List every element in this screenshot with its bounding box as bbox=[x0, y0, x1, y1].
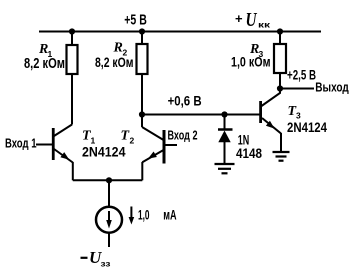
node: output node (R3 / T3 collector) bbox=[277, 85, 283, 91]
svg-text:U: U bbox=[246, 9, 258, 31]
transistor T3 base bar bbox=[259, 101, 262, 123]
current direction arrow (1,0 мА) bbox=[129, 207, 135, 225]
wire: diode anode to ground bbox=[224, 142, 226, 164]
T1 emitter arrow bbox=[60, 152, 69, 160]
diode D1 (1N4148) bbox=[218, 115, 233, 165]
node: tail junction to current source bbox=[106, 177, 112, 183]
wire: T1 emitter down to tail bbox=[72, 162, 74, 180]
wire: current source to -Uээ bbox=[108, 233, 110, 248]
svg-text:Выход: Выход bbox=[315, 80, 349, 94]
wire: rail to R3 top bbox=[279, 32, 281, 45]
T3 emitter arrow bbox=[266, 121, 275, 129]
svg-text:4148: 4148 bbox=[236, 146, 262, 161]
diode cathode bar bbox=[218, 128, 233, 131]
node: R2/T2 collector junction bbox=[139, 111, 145, 117]
wire: tail node to current source bbox=[108, 180, 110, 207]
current source I1 bbox=[96, 180, 122, 247]
svg-text:8,2 кОм: 8,2 кОм bbox=[24, 56, 65, 72]
node: diode junction on +0.6V wire bbox=[221, 111, 227, 117]
svg-text:8,2 кОм: 8,2 кОм bbox=[95, 54, 134, 70]
wire: +0.6V node to diode cathode bbox=[224, 115, 226, 130]
svg-text:+5 В: +5 В bbox=[124, 12, 147, 29]
svg-text:кк: кк bbox=[258, 20, 271, 30]
transistor T2 base bar bbox=[163, 130, 166, 164]
wire: rail to R1 top bbox=[71, 32, 73, 46]
resistor R1 bbox=[67, 45, 78, 74]
diode anode triangle bbox=[218, 131, 230, 143]
node: rail junction above R1 bbox=[69, 28, 75, 34]
ground: under diode bbox=[215, 164, 235, 173]
wire: T2 collector vertical from +0.6V node bbox=[141, 115, 143, 128]
svg-text:зз: зз bbox=[101, 259, 111, 269]
svg-text:1,0: 1,0 bbox=[138, 207, 150, 223]
label: +Uкк supply bbox=[235, 9, 271, 31]
wire: R1 bottom to T1 collector bbox=[71, 74, 73, 125]
label: T1 bbox=[82, 129, 96, 146]
svg-text:2N4124: 2N4124 bbox=[82, 144, 126, 159]
wire: T3 collector diagonal bbox=[262, 89, 281, 107]
svg-text:2N4124: 2N4124 bbox=[287, 120, 327, 135]
svg-text:+: + bbox=[235, 11, 243, 26]
label: R1 bbox=[38, 42, 53, 59]
wire: emitter tail (T1-T2 common) bbox=[73, 179, 143, 181]
node: rail junction above R3 bbox=[277, 28, 283, 34]
svg-text:Вход 1: Вход 1 bbox=[5, 136, 37, 150]
ground: under T3 emitter bbox=[273, 152, 290, 161]
label: R3 bbox=[249, 42, 264, 59]
resistor R2 bbox=[137, 44, 148, 74]
T2 emitter arrow bbox=[148, 152, 157, 159]
node: rail junction above R2 bbox=[139, 28, 145, 34]
svg-text:3: 3 bbox=[296, 111, 301, 121]
transistor T1 base bar bbox=[52, 128, 55, 160]
current source circle bbox=[96, 207, 122, 233]
svg-text:Вход 2: Вход 2 bbox=[168, 128, 198, 142]
label: R2 bbox=[113, 41, 128, 58]
wire: output node to Выход terminal bbox=[280, 88, 314, 90]
wire: rail to R2 top bbox=[141, 32, 143, 45]
wire: T3 emitter diagonal bbox=[262, 118, 281, 134]
wire: T2 emitter diagonal bbox=[142, 150, 163, 162]
svg-text:2: 2 bbox=[130, 136, 135, 146]
svg-text:+2,5 В: +2,5 В bbox=[287, 67, 316, 82]
wire: T2 emitter down to tail bbox=[141, 162, 143, 180]
resistor R3 bbox=[274, 44, 286, 73]
wire: R3 bottom to output node bbox=[279, 73, 281, 89]
svg-text:+0,6 В: +0,6 В bbox=[168, 94, 202, 109]
wire: Вход 1 lead to T1 base bbox=[36, 144, 52, 146]
wire: T1 emitter diagonal bbox=[54, 149, 73, 163]
current source arrow shaft bbox=[108, 211, 110, 222]
wire: T3 emitter down to ground bbox=[280, 133, 282, 152]
current source arrow head bbox=[106, 220, 112, 229]
wire: +5V / +Ukk top supply rail bbox=[39, 31, 321, 33]
wire: T2 collector diagonal bbox=[142, 127, 164, 140]
wire: T2 base stub (Вход 2) bbox=[166, 144, 178, 146]
wire: T1 collector diagonal bbox=[54, 125, 72, 137]
svg-text:1,0 кОм: 1,0 кОм bbox=[231, 53, 271, 69]
label: T3 bbox=[288, 104, 302, 121]
label: -Uээ supply bbox=[81, 248, 111, 269]
wire: +0.6V node rail (R2 bottom to T3 base) bbox=[142, 114, 260, 116]
wire: R2 bottom to +0.6V node bbox=[141, 74, 143, 115]
svg-text:мА: мА bbox=[163, 207, 176, 223]
label: T2 bbox=[121, 129, 135, 146]
